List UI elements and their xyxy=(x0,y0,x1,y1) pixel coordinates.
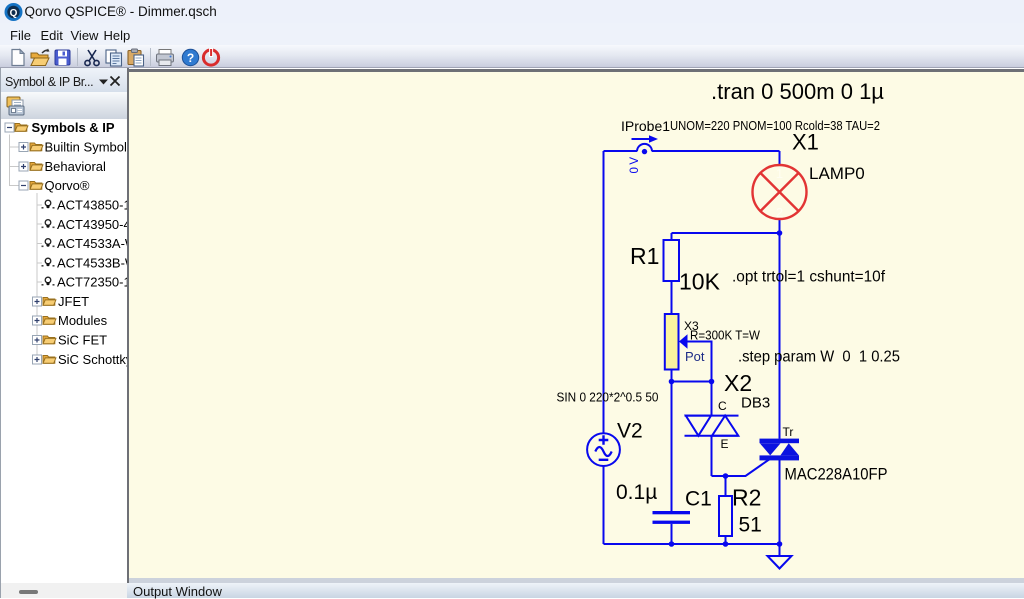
svg-text:C1: C1 xyxy=(685,488,712,511)
wire R1 bottom to pot xyxy=(671,281,673,314)
resistor R1 xyxy=(664,240,680,281)
save icon xyxy=(55,50,70,65)
wire top rail left of IProbe xyxy=(604,150,638,152)
power/exit icon xyxy=(203,49,218,66)
wire V2 bottom to rail xyxy=(603,466,605,544)
wire R2 top stub xyxy=(725,476,727,496)
resistor R2 xyxy=(719,496,732,536)
svg-text:.tran 0 500m 0 1µ: .tran 0 500m 0 1µ xyxy=(711,79,884,104)
svg-text:Qorvo®: Qorvo® xyxy=(45,178,90,193)
potentiometer X3 xyxy=(665,314,688,370)
wire pot bottom stub xyxy=(671,370,673,382)
svg-text:0.1µ: 0.1µ xyxy=(616,481,657,504)
bottom-left grey strip xyxy=(0,583,127,598)
wire R1 top stub xyxy=(671,233,673,240)
under canvas band xyxy=(127,578,1024,583)
canvas dark border top xyxy=(127,69,1024,73)
wire triac gate xyxy=(726,459,771,477)
junction node lamp/R1/triac xyxy=(777,230,783,236)
svg-text:.opt trtol=1 cshunt=10f: .opt trtol=1 cshunt=10f xyxy=(732,269,886,286)
svg-text:LAMP0: LAMP0 xyxy=(809,164,865,183)
copy icon xyxy=(106,50,122,66)
svg-text:Builtin Symbols: Builtin Symbols xyxy=(45,140,128,155)
new document icon xyxy=(12,50,24,66)
wire E to R2 node xyxy=(712,475,726,477)
wire wiper to right then down xyxy=(687,342,712,382)
svg-text:ACT4533A-W: ACT4533A-W xyxy=(57,236,127,251)
svg-text:C: C xyxy=(718,399,727,413)
open folder icon xyxy=(31,49,50,66)
svg-text:IProbe1: IProbe1 xyxy=(621,118,670,134)
svg-text:E: E xyxy=(721,437,729,451)
TOOLBAR ICONS xyxy=(0,45,240,68)
svg-text:DB3: DB3 xyxy=(741,395,770,412)
panel/canvas divider xyxy=(127,68,129,583)
title bar xyxy=(0,0,1024,23)
menu bar xyxy=(0,23,1024,45)
wire horizontal node lamp-R1 xyxy=(672,232,780,234)
panel sub-toolbar icon (new library) xyxy=(0,92,127,119)
svg-text:1: 1 xyxy=(776,166,783,181)
svg-text:V2: V2 xyxy=(617,420,643,443)
svg-text:?: ? xyxy=(187,51,194,65)
wire R2 bottom stub xyxy=(725,536,727,544)
wire ground stub xyxy=(779,544,781,556)
wire bottom rail xyxy=(604,543,780,545)
svg-text:10K: 10K xyxy=(679,269,721,295)
svg-text:ACT72350-10: ACT72350-10 xyxy=(57,275,127,290)
svg-text:Pot: Pot xyxy=(685,349,705,364)
svg-text:Behavioral: Behavioral xyxy=(45,159,107,174)
svg-text:R=300K T=W: R=300K T=W xyxy=(690,329,760,343)
tree area xyxy=(1,119,127,583)
svg-text:Modules: Modules xyxy=(58,313,108,328)
junction node gate/R2 xyxy=(723,473,729,479)
wire top rail right of IProbe xyxy=(652,150,780,152)
wire left rail down to V2 xyxy=(603,151,605,433)
window left edge xyxy=(0,68,1,598)
wire lamp top stub xyxy=(779,151,781,165)
junction node C1/rail xyxy=(669,541,675,547)
wire down to C1 xyxy=(671,382,673,512)
current probe IProbe1 xyxy=(629,135,658,173)
panel header content xyxy=(5,75,93,89)
svg-text:X2: X2 xyxy=(724,370,752,396)
svg-text:2: 2 xyxy=(776,205,783,220)
wire triac MT1 down to rail xyxy=(779,460,781,544)
wire lamp junction down to triac MT2 xyxy=(779,233,781,439)
wire lamp bottom stub xyxy=(779,219,781,233)
wire diac top stub xyxy=(711,382,713,416)
svg-text:X1: X1 xyxy=(792,130,819,155)
svg-text:SiC FET: SiC FET xyxy=(58,333,107,348)
triac Tr xyxy=(760,439,800,461)
ground xyxy=(768,556,792,569)
toolbar xyxy=(0,45,1024,68)
svg-text:SIN 0 220*2^0.5 50: SIN 0 220*2^0.5 50 xyxy=(557,391,659,405)
svg-text:JFET: JFET xyxy=(58,294,89,309)
help icon xyxy=(182,49,198,65)
svg-text:R1: R1 xyxy=(630,243,659,269)
svg-text:ACT43950-40: ACT43950-40 xyxy=(57,217,127,232)
separator xyxy=(150,48,151,66)
junction node R2/rail xyxy=(723,541,729,547)
wire C1 bottom stub xyxy=(671,524,673,544)
TITLEBAR CONTENT xyxy=(0,0,240,23)
svg-text:.step param W 0 1 0.25: .step param W 0 1 0.25 xyxy=(738,349,900,366)
MENU CONTENT xyxy=(10,28,31,43)
left panel header xyxy=(0,68,127,92)
svg-text:0V: 0V xyxy=(629,154,641,173)
svg-text:Q: Q xyxy=(10,8,18,19)
status bar xyxy=(127,583,1024,598)
lamp X1 xyxy=(753,165,807,219)
svg-text:Tr: Tr xyxy=(783,425,794,439)
svg-text:ACT43850-10: ACT43850-10 xyxy=(57,198,127,213)
svg-text:MAC228A10FP: MAC228A10FP xyxy=(785,466,888,484)
junction node wiper/diac xyxy=(709,379,715,385)
separator xyxy=(77,48,78,66)
svg-text:R2: R2 xyxy=(732,485,761,511)
junction node pot bottom xyxy=(669,379,675,385)
wire diac E down xyxy=(711,436,713,476)
print icon xyxy=(157,50,174,66)
paste icon xyxy=(128,49,144,66)
junction node triac/rail xyxy=(777,541,783,547)
left panel sub toolbar xyxy=(0,92,127,119)
TREE xyxy=(0,119,127,583)
capacitor C1 xyxy=(653,511,691,524)
svg-text:Symbols & IP: Symbols & IP xyxy=(32,120,115,135)
svg-text:SiC Schottky: SiC Schottky xyxy=(58,352,127,367)
diac X2 xyxy=(685,416,739,436)
svg-text:51: 51 xyxy=(739,514,762,537)
svg-text:ACT4533B-W: ACT4533B-W xyxy=(57,256,127,271)
svg-text:UNOM=220 PNOM=100 Rcold=38 TAU: UNOM=220 PNOM=100 Rcold=38 TAU=2 xyxy=(670,119,880,133)
cut icon xyxy=(85,50,99,66)
voltage source V2 xyxy=(587,433,620,466)
wire node pot-wiper horizontal xyxy=(672,381,712,383)
canvas xyxy=(129,72,1024,578)
